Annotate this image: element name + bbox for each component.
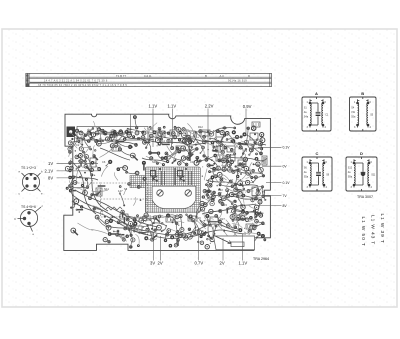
pad (239, 163, 241, 165)
component outline (200, 130, 210, 136)
pad (179, 215, 182, 218)
pad (124, 227, 127, 230)
component fill lines (248, 225, 253, 228)
pad (142, 216, 147, 221)
shield pin top left (159, 168, 161, 170)
pad (137, 244, 140, 247)
pad (213, 154, 217, 158)
svg-text:0.1V: 0.1V (283, 181, 291, 185)
scale right end cap (269, 73, 271, 86)
component body (122, 212, 124, 218)
wire (251, 148, 261, 150)
solder speck (99, 138, 101, 140)
solder speck (239, 215, 240, 216)
wire (213, 223, 215, 239)
pad (261, 186, 263, 188)
wire (252, 145, 261, 153)
component outline (156, 131, 165, 137)
component fill lines (202, 131, 209, 135)
pad (145, 147, 147, 149)
wire (221, 135, 225, 144)
wire (202, 145, 204, 157)
wire (227, 209, 243, 212)
wire (231, 193, 244, 199)
wire (86, 180, 93, 188)
pad (163, 131, 166, 134)
wire (168, 216, 177, 224)
solder speck (197, 142, 199, 144)
wire (103, 131, 115, 133)
pad (87, 131, 91, 135)
wire (220, 185, 232, 187)
component body (77, 209, 83, 211)
pad (202, 232, 206, 236)
solder speck (165, 132, 167, 134)
wire (82, 160, 84, 168)
wire (238, 167, 242, 175)
leader line 1.1V b (172, 109, 174, 145)
junction dot (170, 158, 171, 159)
wire (240, 144, 244, 154)
pad (103, 238, 107, 242)
pad (113, 130, 117, 134)
pad (126, 225, 130, 229)
pad (147, 141, 149, 143)
pad (200, 241, 204, 245)
junction dot (235, 165, 237, 167)
wire (218, 192, 222, 197)
pad (195, 147, 198, 150)
pad (79, 176, 81, 178)
junction dot (213, 163, 215, 165)
svg-text:TRA 3007: TRA 3007 (357, 195, 373, 199)
pad (121, 210, 124, 213)
wire (212, 145, 217, 151)
component outline (216, 155, 224, 161)
pad (119, 193, 121, 195)
pad (101, 129, 104, 132)
junction dot (195, 226, 197, 228)
pad (238, 192, 243, 197)
pad (101, 210, 103, 212)
pad (214, 138, 216, 140)
pad (130, 246, 132, 248)
pad (256, 139, 258, 141)
wire (75, 135, 89, 141)
wire (188, 137, 190, 153)
wire (262, 187, 265, 200)
pad (66, 187, 69, 190)
pad (71, 186, 74, 189)
wire (250, 162, 252, 169)
pad (91, 133, 95, 137)
wire (204, 208, 206, 220)
svg-text:TS 1+2+3: TS 1+2+3 (21, 166, 36, 170)
wire (117, 142, 130, 147)
pad (133, 218, 137, 222)
wire (77, 131, 91, 139)
junction dot (124, 217, 125, 218)
wire (212, 160, 218, 168)
wire (209, 221, 214, 234)
component fill lines (178, 147, 184, 150)
wire (108, 226, 138, 230)
wire (200, 156, 215, 161)
wire (204, 156, 212, 160)
component body (143, 163, 145, 171)
component body (241, 237, 246, 242)
pad (249, 216, 253, 220)
wire (97, 217, 109, 228)
junction dot (161, 231, 163, 233)
junction dot (199, 219, 200, 220)
component fill lines (234, 216, 240, 219)
wire (82, 135, 86, 144)
junction dot (147, 234, 148, 235)
wire (234, 215, 240, 221)
wire (210, 168, 219, 172)
dashed extension line (72, 182, 101, 184)
wire (120, 194, 124, 206)
pad (247, 190, 250, 193)
pad (155, 138, 160, 143)
wire (69, 180, 73, 195)
pad (213, 146, 216, 149)
component body (145, 141, 151, 143)
wire (202, 142, 214, 146)
wire (168, 152, 177, 162)
pad (233, 205, 237, 209)
pad (254, 141, 257, 144)
solder speck (228, 166, 230, 168)
wire (253, 177, 256, 182)
component outline (238, 160, 246, 166)
component body (92, 194, 98, 196)
svg-text:C21: C21 (246, 168, 251, 172)
junction dot (252, 181, 254, 183)
transformer unit D (346, 157, 377, 191)
wire (229, 155, 232, 170)
pad (136, 214, 139, 217)
wire (148, 142, 151, 153)
pad (80, 205, 83, 208)
wire (200, 220, 205, 226)
pad (226, 159, 229, 162)
pad (95, 215, 99, 219)
pad (146, 228, 149, 231)
wire (251, 223, 253, 232)
svg-text:R22: R22 (218, 188, 223, 192)
pad (236, 175, 239, 178)
wire (258, 187, 262, 194)
dashed alignment box left of shield (101, 183, 148, 217)
pad (221, 150, 225, 154)
wire (244, 232, 250, 235)
wire (120, 223, 135, 227)
component fill lines (218, 147, 223, 151)
wire (152, 229, 165, 231)
pad (206, 238, 208, 240)
pad (183, 139, 187, 143)
svg-text:0.9V: 0.9V (243, 104, 252, 109)
pad (238, 142, 241, 145)
wire (207, 185, 214, 197)
wire (76, 135, 82, 140)
component body (219, 159, 225, 161)
pad (111, 131, 115, 135)
pad (133, 222, 137, 226)
svg-text:S12: S12 (348, 167, 353, 170)
wire (227, 137, 241, 140)
wire (193, 220, 199, 232)
wire (148, 136, 151, 142)
pad (256, 191, 260, 195)
svg-text:C31: C31 (204, 231, 209, 235)
solder speck (190, 158, 192, 160)
pad (191, 218, 195, 222)
pad (221, 203, 224, 206)
solder speck (185, 156, 186, 157)
pad (248, 154, 250, 156)
wire (257, 235, 263, 237)
leader line 0.1V mid (266, 182, 282, 184)
pad (178, 162, 182, 166)
pad (229, 180, 232, 183)
pad (241, 216, 246, 221)
wire (226, 156, 267, 161)
left voltage label 1V (45, 161, 54, 181)
transistor pinout circle TS 1+2+3 (22, 173, 41, 192)
solder speck (221, 225, 222, 226)
wire (245, 134, 256, 142)
svg-text:C14: C14 (222, 126, 227, 130)
pad (240, 136, 243, 139)
wire (205, 191, 213, 200)
junction dot (211, 159, 213, 161)
scale line 4 (26, 82, 272, 84)
solder speck (142, 218, 144, 220)
solder speck (210, 243, 211, 244)
solder speck (160, 143, 162, 145)
pad (167, 132, 169, 134)
wire (139, 138, 145, 142)
wire (113, 231, 122, 235)
long component strip top-left (77, 127, 148, 141)
solder speck (213, 232, 214, 233)
pad (260, 147, 263, 150)
component body (246, 244, 253, 246)
wire (243, 196, 256, 199)
wire (112, 132, 115, 141)
svg-text:R12: R12 (198, 125, 203, 129)
pad (251, 144, 253, 146)
pad (143, 177, 147, 181)
wire (225, 127, 235, 129)
pad (163, 126, 166, 129)
pad (139, 218, 144, 223)
wire (185, 141, 190, 153)
pad (90, 168, 93, 171)
wire (200, 220, 210, 226)
wire (138, 216, 143, 229)
pad (154, 229, 157, 232)
svg-text:D2: D2 (134, 142, 138, 146)
wire (166, 153, 180, 160)
svg-text:R24: R24 (240, 203, 245, 207)
pad (83, 190, 88, 195)
wire (212, 143, 213, 151)
wire (209, 220, 220, 222)
pad (208, 170, 211, 173)
pad (206, 193, 209, 196)
wire (176, 223, 180, 235)
component body (80, 161, 82, 166)
pad (214, 174, 218, 178)
pad (225, 132, 229, 136)
pad (135, 126, 138, 129)
pad (187, 157, 190, 160)
pad (219, 183, 222, 186)
pad (252, 226, 256, 230)
pad (76, 137, 78, 139)
svg-text:S4a: S4a (304, 116, 309, 119)
coil primary A (310, 103, 311, 125)
pad (260, 138, 265, 143)
pad (218, 220, 222, 224)
svg-text:2V: 2V (220, 261, 225, 266)
pad (260, 133, 264, 137)
scale tick numbers row 3 (38, 84, 127, 87)
svg-text:0.7V: 0.7V (195, 261, 204, 266)
pad (126, 235, 129, 238)
pad (244, 166, 249, 171)
coil secondary C (323, 163, 324, 185)
wire (108, 228, 110, 234)
pad (158, 215, 161, 218)
svg-text:147: 147 (118, 189, 123, 193)
pad (141, 136, 145, 140)
pad (230, 192, 234, 196)
wire (158, 153, 162, 158)
pad (71, 228, 76, 233)
pad (234, 188, 238, 192)
component fill lines (114, 147, 119, 150)
pad (255, 153, 258, 156)
wire (230, 212, 237, 214)
component body (232, 194, 239, 196)
junction dot (128, 230, 130, 232)
scale tick numbers row 2 (44, 80, 247, 83)
solder speck (256, 190, 257, 191)
pad (96, 193, 98, 195)
PCB board outline (64, 114, 271, 250)
pad (210, 201, 214, 205)
svg-text:114 11: 114 11 (144, 74, 152, 78)
pad (209, 138, 211, 140)
component outline (186, 131, 195, 137)
pad (158, 127, 161, 130)
pad (109, 219, 113, 223)
component body (172, 159, 176, 163)
junction dot (250, 225, 251, 226)
pad (233, 127, 236, 130)
trimmer capacitor D (362, 163, 364, 185)
wire (236, 160, 246, 167)
pad (181, 156, 185, 160)
pad (254, 205, 258, 209)
wire (148, 226, 153, 240)
wire (160, 129, 162, 139)
component body (159, 129, 161, 134)
pad (200, 235, 203, 238)
pad (177, 149, 181, 153)
pad (178, 232, 183, 237)
pad (79, 154, 83, 158)
svg-text:1.1V: 1.1V (149, 103, 158, 108)
pad (149, 134, 153, 138)
junction dot (151, 228, 153, 230)
wire (95, 126, 101, 142)
svg-text:A: A (315, 91, 318, 96)
junction dot (171, 139, 172, 140)
component body (150, 152, 158, 154)
solder speck (190, 215, 192, 217)
pad (126, 218, 129, 221)
wire (210, 168, 262, 174)
wire (71, 204, 75, 208)
pad (128, 221, 132, 225)
pad (127, 182, 130, 185)
wire (220, 145, 222, 152)
solder speck (219, 200, 220, 201)
wire (99, 141, 112, 144)
pad (245, 211, 249, 215)
component body (188, 137, 192, 141)
scale left end caps (26, 73, 28, 86)
wire (224, 190, 228, 198)
wire (181, 160, 187, 164)
pad (180, 228, 184, 232)
component outline (170, 130, 179, 136)
pad (236, 195, 239, 198)
pin stubs B (362, 97, 364, 131)
solder speck (156, 161, 158, 163)
leader line 1.1V a (152, 109, 154, 148)
leader line 7V (252, 194, 282, 196)
pad (74, 199, 79, 204)
wire (123, 212, 128, 220)
pad (135, 131, 139, 135)
pad (259, 214, 263, 218)
component fill lines (188, 132, 194, 136)
top voltage labels (149, 103, 252, 108)
wire (76, 167, 79, 183)
pad (90, 173, 93, 176)
pad (249, 148, 253, 152)
pad (72, 176, 75, 179)
wire (241, 141, 257, 145)
wire (90, 206, 103, 211)
component fill lines (158, 132, 164, 136)
wire (235, 143, 239, 149)
wire (71, 188, 85, 192)
pad (93, 207, 96, 210)
wire (148, 123, 157, 134)
svg-text:R15: R15 (186, 148, 191, 152)
pad (82, 151, 85, 154)
wire (187, 215, 194, 220)
right voltage labels (283, 146, 291, 208)
